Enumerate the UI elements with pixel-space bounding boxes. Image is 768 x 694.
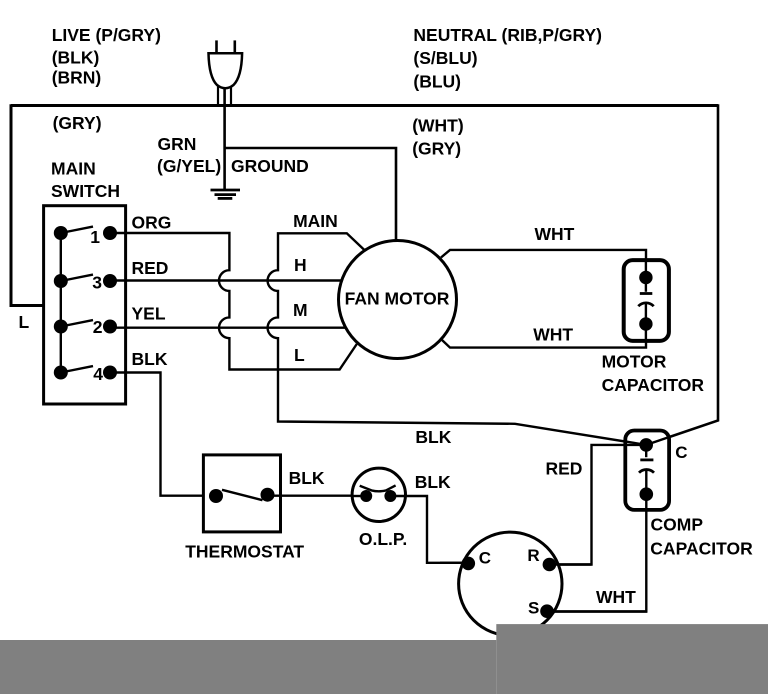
svg-text:C: C [479,549,491,568]
wire right neutral rail [646,104,718,445]
svg-text:BLK: BLK [132,349,168,369]
ground symbol [211,190,241,198]
svg-text:M: M [293,300,308,320]
wire RED [110,279,342,281]
svg-text:L: L [19,312,30,332]
wire BLK to thermostat [110,373,216,496]
svg-text:MOTOR: MOTOR [602,352,667,372]
svg-text:GRN: GRN [158,134,197,154]
wire OLP to compressor C [390,496,468,563]
svg-text:FAN MOTOR: FAN MOTOR [345,289,450,309]
svg-text:SWITCH: SWITCH [51,181,120,201]
wire ground lead [223,87,226,190]
wire left live rail [11,104,61,305]
wire WHT bottom [442,324,646,348]
svg-text:3: 3 [92,273,102,293]
svg-text:O.L.P.: O.L.P. [359,529,407,549]
svg-text:BLK: BLK [415,427,451,447]
svg-text:WHT: WHT [596,587,636,607]
svg-text:L: L [294,345,305,365]
svg-text:(G/YEL): (G/YEL) [157,156,221,176]
comp capacitor C2 [625,431,671,510]
svg-text:H: H [294,255,307,275]
gray bar right [496,624,768,694]
OLP U1 [352,468,405,521]
fan motor M1 [339,241,457,359]
gray bar left [0,640,496,694]
svg-text:LIVE (P/GRY): LIVE (P/GRY) [52,25,161,45]
wire C into compressor [440,562,468,564]
thermostat S2 [203,455,280,532]
svg-text:WHT: WHT [533,325,573,345]
svg-text:(GRY): (GRY) [412,138,461,158]
svg-text:CAPACITOR: CAPACITOR [602,375,705,395]
svg-text:WHT: WHT [535,224,575,244]
wire thermostat to OLP [268,495,367,497]
wire R out [549,563,591,565]
svg-text:MAIN: MAIN [293,211,338,231]
svg-text:4: 4 [93,364,103,384]
svg-text:(S/BLU): (S/BLU) [413,48,477,68]
wire comp cap to S [547,494,646,611]
svg-text:NEUTRAL (RIB,P/GRY): NEUTRAL (RIB,P/GRY) [413,25,602,45]
svg-text:CAPACITOR: CAPACITOR [650,539,753,559]
switch pole 4 [54,364,117,384]
motor capacitor C1 [624,259,669,342]
svg-text:RED: RED [546,459,583,479]
switch pole 1 [54,226,117,247]
wire neutral branch to fan motor [225,148,396,241]
wire RED comp [549,445,640,565]
svg-text:ORG: ORG [132,213,172,233]
svg-text:RED: RED [132,258,169,278]
svg-text:1: 1 [90,227,100,247]
svg-text:BLK: BLK [289,468,325,488]
svg-text:2: 2 [93,317,103,337]
svg-text:THERMOSTAT: THERMOSTAT [185,541,304,561]
svg-text:(BLU): (BLU) [413,72,461,92]
wire WHT top [441,250,646,271]
wire MAIN and fan common [268,233,647,445]
compressor M2 [459,532,562,635]
svg-text:R: R [527,546,539,565]
node R terminal [543,558,557,572]
svg-text:GROUND: GROUND [231,156,309,176]
svg-text:(BLK): (BLK) [52,47,100,67]
svg-text:(WHT): (WHT) [412,116,464,136]
switch pole 3 [54,273,117,293]
wire S out [547,610,647,612]
svg-text:COMP: COMP [651,515,704,535]
wire top rail [11,104,718,107]
node C terminal [462,557,476,571]
svg-text:C: C [675,443,687,462]
svg-text:YEL: YEL [132,304,166,324]
svg-text:(GRY): (GRY) [53,113,102,133]
plug P1 [209,40,243,105]
wire ORG [110,233,357,370]
wire switch bus [60,233,62,373]
wire YEL [110,327,346,329]
node S terminal [540,604,554,618]
main switch S1 box [44,206,126,404]
node comp cap C terminal [639,438,653,452]
svg-text:(BRN): (BRN) [52,67,102,87]
switch pole 2 [54,317,117,337]
svg-text:BLK: BLK [415,472,451,492]
svg-text:S: S [528,599,539,618]
svg-text:MAIN: MAIN [51,158,96,178]
